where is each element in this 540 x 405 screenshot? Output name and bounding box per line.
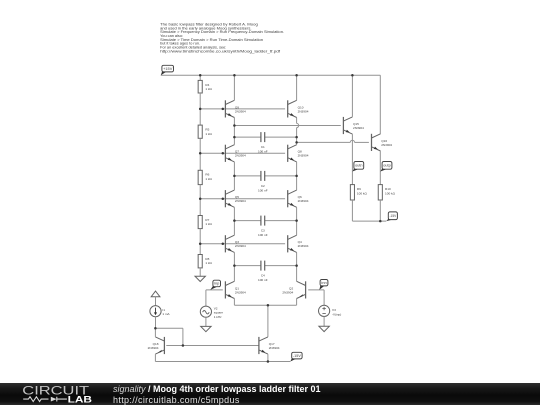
svg-text:100 nF: 100 nF [258,278,268,282]
wire left ladder node 1 [233,118,235,145]
junction [233,219,236,222]
wire V2 to ground [205,317,207,326]
svg-text:http://www.timstinchcombe.co.u: http://www.timstinchcombe.co.uk/synth/Mo… [160,49,281,53]
wire bias node C to bases [200,198,285,200]
wire Q18 emitter down [154,354,156,361]
wire Q15 emitter to R9 [351,134,353,185]
wire bias node D to bases [200,243,285,245]
wire Q10 collector to rail [296,75,298,100]
wire R9 to bottom [351,200,353,221]
svg-text:C3: C3 [261,229,265,233]
svg-text:LAB: LAB [68,395,93,405]
wire corner down to V3 [323,290,325,306]
capacitor C3 [234,216,296,238]
wire I1 node right [155,327,183,329]
wire Q18 base to Q17 base [166,345,259,347]
svg-text:outn: outn [355,164,363,168]
svg-text:1 kΩ: 1 kΩ [205,177,212,181]
svg-text:2N3904: 2N3904 [235,199,246,203]
wire Q9 emitter node to Q15 base [234,125,340,127]
resistor R8 [198,255,212,268]
junction [233,136,236,139]
junction [199,152,202,155]
node label -15V [290,352,302,361]
transistor Q9 [225,100,246,117]
wire rail to R4 [199,75,201,80]
resistor R4 [198,80,212,93]
svg-text:2N3904: 2N3904 [235,154,246,158]
ground below V2 [201,326,211,331]
svg-text:1 kΩ: 1 kΩ [205,222,212,226]
wire R7 to R8 [199,229,201,255]
svg-text:2N3904: 2N3904 [353,126,364,130]
wire Q17 emitter down [267,354,269,361]
node label inn [319,280,328,290]
junction [222,243,225,246]
svg-text:100 nF: 100 nF [258,150,268,154]
svg-text:1 kHz: 1 kHz [214,315,222,319]
junction [199,108,202,111]
svg-text:1 kΩ: 1 kΩ [205,261,212,265]
transistor Q16 [372,134,393,151]
transistor Q10 [288,100,309,117]
svg-text:2N3904: 2N3904 [148,346,159,350]
wire R8 to ground [199,268,201,276]
svg-text:2N3904: 2N3904 [235,244,246,248]
resistor R6 [198,170,212,184]
wire corner down to V2 [205,290,207,306]
transistor Q18 [148,337,165,354]
junction [233,175,236,178]
wire right ladder node 3 [296,207,298,235]
resistor R7 [198,216,212,229]
junction [379,220,382,223]
svg-text:inn: inn [321,281,327,285]
junction [222,152,225,155]
svg-text:-V(inp): -V(inp) [332,312,341,316]
wire Q16 emitter to R10 [379,151,381,185]
svg-text:C4: C4 [261,274,265,278]
svg-text:inp: inp [214,282,219,286]
CircuitLab logo [0,383,110,405]
svg-text:100 kΩ: 100 kΩ [385,191,396,195]
transistor Q5 [225,190,246,207]
wire tail to Q17 collector [267,305,269,337]
capacitor C1 [234,132,296,154]
svg-text:+15V: +15V [163,67,173,71]
wire bias node B to bases [200,152,285,154]
junction [199,74,202,77]
capacitor C2 [234,171,296,193]
svg-text:outp: outp [383,164,391,168]
svg-text:2N3904: 2N3904 [269,346,280,350]
wire V2 to Q1 base [206,289,223,291]
wire R9/R10 common to -15V [352,220,386,222]
svg-text:C1: C1 [261,145,265,149]
wire -15V bottom rail [155,361,290,363]
transistor Q4 [288,235,309,252]
wire left ladder node 2 [233,162,235,190]
wire rail to Q15 collector [351,75,353,117]
capacitor C4 [234,261,296,283]
footer title [113,384,321,394]
transistor Q3 [225,235,246,252]
junction [233,264,236,267]
junction [267,360,270,363]
wire R6 to R7 [199,185,201,216]
wire left ladder node 4 [233,252,235,281]
svg-text:1 kΩ: 1 kΩ [205,87,212,91]
node label outp [380,162,392,172]
footer url [113,395,240,405]
junction [199,197,202,200]
junction [295,136,298,139]
transistor Q6 [288,190,309,207]
voltage source V3 [319,305,342,316]
node label inp [210,280,220,290]
current source I1 [150,306,171,317]
ground below R8 [195,276,205,281]
svg-text:2N3904: 2N3904 [282,290,293,294]
ground below V3 [319,326,329,331]
wire R5 to R6 [199,138,201,170]
svg-text:100 nF: 100 nF [258,233,268,237]
wire right ladder node 4 [296,252,298,281]
node label -15V [386,212,397,221]
wire left ladder node 3 [233,207,235,235]
junction [222,197,225,200]
junction [295,264,298,267]
svg-text:2N3904: 2N3904 [298,154,309,158]
wire Q10 emitter node to Q16 base (hop over Q15 emitter) [297,141,351,143]
svg-text:1 kΩ: 1 kΩ [205,132,212,136]
svg-text:-15V: -15V [293,354,302,358]
wire bias node A to bases [200,108,285,110]
wire down to mirror bases [182,328,184,345]
wire Q2 emitter down [296,299,298,306]
junction [295,141,298,144]
wire right ladder node 1 (with hop over Q15 base wire) [296,118,298,124]
transistor Q2 [282,281,305,298]
footer bar [0,383,540,405]
resistor R5 [198,125,212,138]
wire tail [234,304,296,306]
junction [295,175,298,178]
svg-text:1 mA: 1 mA [162,312,170,316]
wire rail corner down to Q16 collector [379,75,381,134]
wire R10 to bottom [379,200,381,221]
resistor R9 [350,185,367,200]
junction [233,74,236,77]
node label +15V [161,65,174,75]
transistor Q1 [225,281,246,298]
wire Q2 base to corner [308,289,324,291]
junction [182,344,185,347]
power arrow above I1 [151,291,160,297]
junction [199,243,202,246]
svg-text:C2: C2 [261,184,265,188]
junction [222,108,225,111]
node label outn [352,162,363,172]
svg-text:2N3904: 2N3904 [298,244,309,248]
svg-text:100 nF: 100 nF [258,188,268,192]
transistor Q15 [343,117,364,134]
junction [295,219,298,222]
svg-text:2N3904: 2N3904 [235,290,246,294]
wire Q1 emitter down [233,299,235,306]
wire +15V rail [161,74,380,76]
wire I1 down [155,317,157,329]
junction [267,304,270,307]
voltage source V2 [200,306,223,319]
junction [295,74,298,77]
transistor Q7 [225,145,246,162]
junction [154,327,157,330]
resistor R10 [378,185,395,200]
junction [351,74,354,77]
svg-text:100 kΩ: 100 kΩ [357,191,368,195]
wire arrow to I1 [155,297,157,306]
svg-text:-15V: -15V [390,214,397,218]
wire Q9 collector to rail [233,75,235,100]
svg-text:2N3904: 2N3904 [381,143,392,147]
wire right ladder node 2 [296,162,298,190]
svg-text:2N3904: 2N3904 [235,109,246,113]
transistor Q17 [259,337,280,354]
description annotation text [160,22,284,53]
svg-text:2N3904: 2N3904 [298,109,309,113]
transistor Q8 [288,145,309,162]
svg-text:2N3904: 2N3904 [298,199,309,203]
wire R4 to R5 [199,93,201,125]
wire V3 to ground [323,317,325,327]
wire Q18 collector up [154,328,156,337]
junction [233,124,236,127]
